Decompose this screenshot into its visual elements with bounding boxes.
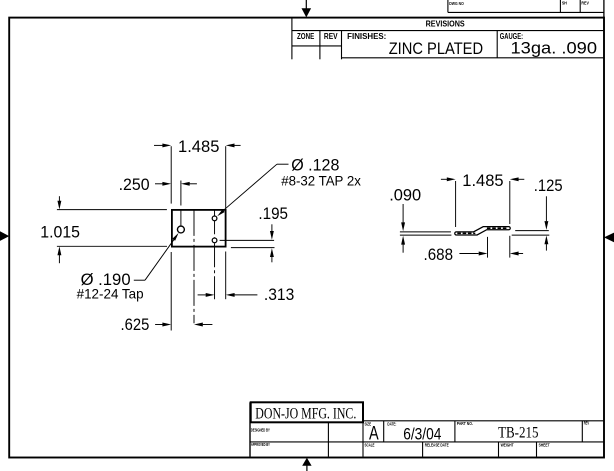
- svg-text:.195: .195: [258, 204, 288, 223]
- svg-text:APPROVED BY: APPROVED BY: [251, 442, 270, 447]
- svg-text:.125: .125: [534, 176, 563, 195]
- svg-text:SHEET: SHEET: [539, 442, 550, 447]
- svg-text:1.485: 1.485: [462, 171, 503, 190]
- svg-text:1.015: 1.015: [40, 223, 80, 242]
- svg-text:#12-24 Tap: #12-24 Tap: [77, 286, 144, 302]
- svg-text:REVISIONS: REVISIONS: [426, 19, 465, 29]
- svg-text:REV: REV: [581, 1, 589, 6]
- svg-text:REV: REV: [584, 421, 589, 426]
- svg-text:FINISHES:: FINISHES:: [347, 32, 386, 41]
- svg-text:1.485: 1.485: [178, 137, 219, 156]
- svg-text:PART NO.: PART NO.: [457, 421, 473, 426]
- svg-text:6/3/04: 6/3/04: [403, 425, 441, 443]
- svg-text:REV: REV: [324, 32, 338, 41]
- svg-text:DATE:: DATE:: [387, 421, 396, 426]
- svg-text:.250: .250: [119, 175, 150, 194]
- svg-text:.313: .313: [264, 285, 294, 304]
- svg-text:ZINC PLATED: ZINC PLATED: [389, 39, 483, 58]
- svg-text:SH: SH: [562, 1, 568, 6]
- svg-text:.090: .090: [389, 186, 421, 205]
- svg-text:DESIGNED BY: DESIGNED BY: [251, 427, 270, 432]
- svg-text:DWG NO: DWG NO: [449, 1, 464, 6]
- svg-text:A: A: [369, 423, 379, 444]
- svg-text:13ga. .090: 13ga. .090: [511, 39, 598, 58]
- svg-text:WEIGHT: WEIGHT: [501, 442, 514, 447]
- svg-text:.625: .625: [121, 315, 150, 334]
- svg-text:TB-215: TB-215: [498, 425, 538, 442]
- svg-text:DON-JO MFG. INC.: DON-JO MFG. INC.: [255, 405, 356, 422]
- svg-text:.688: .688: [424, 245, 454, 264]
- svg-text:#8-32 TAP 2x: #8-32 TAP 2x: [281, 173, 361, 189]
- svg-text:ZONE: ZONE: [297, 32, 314, 41]
